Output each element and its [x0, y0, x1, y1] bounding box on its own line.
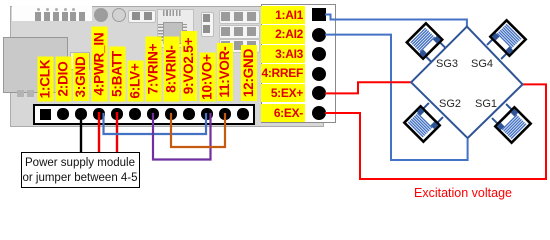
label 4:RREF: [261, 64, 305, 83]
pin header block: [33, 104, 255, 125]
AI connector housing: [261, 4, 336, 123]
SG3 tab stubs: [423, 39, 446, 62]
label 10:VO+: [199, 52, 215, 101]
header pin 8: [165, 108, 176, 119]
label 2:DIO: [55, 56, 71, 101]
header pin 1 (square): [40, 109, 51, 120]
label 5:EX+: [261, 84, 305, 103]
AI pin 4: [312, 67, 326, 81]
AI pin 2: [312, 28, 326, 42]
QFP chip U1 top pins: [163, 10, 181, 16]
wire black pin3 to power box: [80, 112, 82, 153]
pad group row 3: [219, 39, 260, 53]
circle component 1: [94, 8, 108, 22]
comb connector white strip top-left: [12, 6, 92, 21]
AI pin 5: [312, 86, 326, 100]
small white component right of shield: [70, 52, 90, 70]
label 9:VO2.5+: [181, 31, 197, 101]
node label SG1: [475, 98, 497, 110]
wire blue jumper pin4 to pin10: [104, 113, 207, 134]
wire blue AI1 to bridge top node: [325, 15, 467, 28]
label 6:EX-: [261, 104, 305, 123]
strain gauge SG2: [404, 106, 439, 141]
AI pin 6: [312, 106, 326, 120]
QFP chip U1 outline: [157, 9, 194, 48]
node label SG3: [436, 58, 458, 70]
label 12:GND: [241, 45, 257, 101]
excitation voltage label: [375, 186, 550, 200]
strain gauge SG3: [407, 23, 442, 58]
wire red pin5 to power box: [116, 112, 118, 153]
wire purple jumper pin7 to pin10: [153, 113, 211, 160]
QFP chip U1 body: [163, 22, 183, 44]
strain gauge SG1: [495, 107, 530, 142]
small pads above header pin 1: [17, 90, 24, 97]
label 5:BATT: [109, 46, 125, 101]
circle component 2: [112, 8, 126, 22]
pad group row 1: [219, 10, 260, 24]
label 3:GND: [73, 53, 89, 101]
SG2 tab stubs: [420, 103, 443, 126]
pad group row 2: [219, 25, 260, 39]
header pin 9: [183, 108, 194, 119]
SG1 tab stubs: [492, 104, 515, 127]
wire orange jumper pin8 to pin11: [171, 113, 225, 147]
label 1:CLK: [37, 56, 53, 101]
label 7:VRIN+: [145, 36, 161, 101]
label 1:AI1: [261, 6, 305, 25]
label 4:PWR_IN: [91, 26, 107, 101]
wire red pin4 to power box: [98, 112, 100, 153]
label 6:LV+: [127, 60, 143, 101]
header pin 4: [93, 108, 104, 119]
wire red EX- excitation loop to bridge right node: [325, 84, 546, 179]
header pin 7: [147, 108, 158, 119]
QFP chip U1 left pins: [158, 24, 164, 41]
comb connector dots: [37, 8, 40, 11]
wire blue AI2 to bridge bottom node: [325, 35, 468, 160]
comb connector teeth: [35, 12, 41, 21]
SG4 tab stubs: [487, 36, 510, 59]
2-pad horizontal component: [128, 10, 156, 23]
power supply module box: [21, 152, 140, 188]
bridge diamond: [411, 27, 522, 139]
AI pin 3: [312, 47, 326, 61]
AI pin 1 (square): [312, 8, 326, 21]
PCB board (left module photo): [10, 6, 324, 127]
label 8:VRIN-: [163, 36, 179, 101]
strain gauge SG4: [490, 20, 525, 55]
header pin 2: [57, 108, 68, 119]
header pin 3: [75, 108, 86, 119]
node label SG4: [471, 58, 493, 70]
wire red EX+ to bridge left node: [325, 82, 412, 93]
vertical 2-pad component: [201, 12, 214, 37]
header pin 12: [237, 108, 248, 119]
header pin 10: [201, 108, 212, 119]
header pin 6: [129, 108, 140, 119]
node label SG2: [439, 98, 461, 110]
label 11:VOR-: [217, 43, 233, 101]
label 2:AI2: [261, 25, 305, 44]
QFP chip U1 right pins: [181, 24, 187, 41]
header pin 5: [111, 108, 122, 119]
shield can block: [3, 37, 68, 93]
label 3:AI3: [261, 45, 305, 64]
header pin 11: [219, 108, 230, 119]
